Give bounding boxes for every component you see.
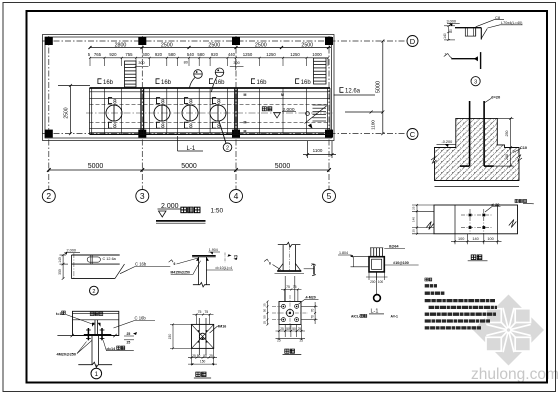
svg-text:350: 350: [58, 269, 62, 275]
svg-text:540: 540: [187, 52, 195, 57]
svg-text:70: 70: [234, 254, 238, 258]
svg-text:5000: 5000: [275, 163, 291, 170]
svg-text:1000: 1000: [312, 52, 322, 57]
grating bars above box: [371, 248, 383, 257]
svg-text:1: 1: [95, 371, 99, 378]
svg-text:L-1: L-1: [187, 146, 196, 152]
svg-text:7: 7: [445, 53, 447, 57]
svg-text:AICL-: AICL-: [351, 315, 360, 319]
svg-text:150: 150: [200, 360, 206, 364]
svg-text:d-20: d-20: [491, 202, 500, 207]
svg-text:50: 50: [263, 309, 267, 313]
svg-text:6: 6: [174, 262, 176, 266]
bottom dims of beam plan: [451, 234, 502, 245]
center line: [73, 253, 75, 280]
svg-text:C 16b: C 16b: [135, 261, 147, 266]
svg-text:580: 580: [168, 52, 176, 57]
bottom dims: [188, 348, 217, 365]
svg-text:140: 140: [412, 217, 416, 222]
beam body: [73, 311, 119, 335]
svg-text:50: 50: [292, 327, 296, 331]
plan title: [156, 203, 224, 223]
svg-text:1100: 1100: [371, 120, 376, 130]
top dim: [281, 288, 302, 301]
svg-text:1.904: 1.904: [209, 248, 218, 252]
column: [193, 257, 210, 287]
bottom dim: [366, 272, 388, 280]
stem and bolt: [376, 272, 378, 295]
left dim stack: [267, 301, 269, 326]
joists: [104, 88, 306, 134]
svg-text:16b: 16b: [301, 80, 312, 86]
left dim: [60, 254, 69, 280]
svg-text:C10: C10: [520, 146, 527, 150]
tank circles on deck: [106, 105, 226, 121]
leader 4-M20: [485, 207, 501, 213]
svg-text:8: 8: [189, 123, 193, 130]
grid3 beam: [140, 88, 142, 134]
svg-text:A#-1: A#-1: [391, 315, 398, 319]
svg-text:75: 75: [198, 310, 202, 314]
break marks: [431, 157, 437, 163]
svg-text:765: 765: [94, 52, 102, 57]
column cross through plate: [199, 318, 206, 355]
svg-text:25: 25: [263, 321, 267, 325]
square plate: [192, 324, 214, 348]
leader C8: [476, 20, 523, 28]
anchor bolts: [460, 101, 494, 166]
callout 2 on plan: [219, 121, 232, 152]
gussets: [278, 264, 301, 271]
lower beam C16b: [72, 278, 115, 280]
beam label C12.6a with leader: [334, 88, 376, 96]
svg-text:-0.200: -0.200: [442, 140, 453, 144]
callout 3: [471, 77, 480, 86]
svg-text:25: 25: [127, 332, 131, 336]
svg-text:3.000: 3.000: [447, 20, 457, 24]
svg-text:100: 100: [378, 280, 384, 284]
svg-text:75: 75: [286, 285, 290, 289]
svg-text:25: 25: [280, 327, 284, 331]
detail callout bubbles on plan: [190, 68, 224, 92]
deck left edge: [89, 88, 91, 134]
svg-text:2.000: 2.000: [67, 248, 77, 252]
bottom 1100 dim: [303, 141, 336, 158]
bolts: [281, 304, 298, 321]
deck right edge: [327, 88, 329, 134]
stiffener: [94, 320, 96, 336]
svg-text:580: 580: [197, 52, 205, 57]
captions: [351, 315, 360, 319]
grid line 2: [48, 36, 50, 190]
svg-text:2500: 2500: [208, 43, 220, 49]
svg-text:2500: 2500: [64, 107, 70, 118]
weld triangles: [92, 323, 95, 327]
label: [196, 372, 200, 376]
bottom dims: [276, 325, 306, 341]
svg-text:50: 50: [197, 354, 201, 358]
right small dims: [124, 336, 134, 340]
svg-text:200: 200: [505, 154, 509, 160]
right bolt symbol: [224, 253, 226, 263]
columns (black squares): [45, 37, 333, 138]
top dim: [193, 314, 214, 325]
svg-text:2: 2: [92, 289, 95, 295]
svg-text:2: 2: [226, 146, 229, 152]
svg-text:50: 50: [263, 315, 267, 319]
svg-text:75: 75: [204, 310, 208, 314]
svg-text:80: 80: [449, 29, 453, 33]
svg-text:4M16: 4M16: [217, 324, 226, 328]
svg-text:1250: 1250: [243, 52, 253, 57]
svg-text:C 16b: C 16b: [135, 316, 147, 321]
svg-text:1250: 1250: [290, 52, 300, 57]
svg-text:250: 250: [505, 131, 509, 137]
svg-text:M: M: [244, 93, 247, 97]
bedding leader: [513, 149, 521, 153]
svg-text:150: 150: [168, 334, 172, 340]
svg-text:400: 400: [142, 52, 150, 57]
grid line 4: [235, 36, 237, 190]
platform outline: [43, 35, 335, 141]
svg-text:C8: C8: [495, 15, 501, 20]
svg-text:80: 80: [184, 61, 188, 65]
bedding line below: [435, 186, 520, 188]
svg-text:920: 920: [211, 52, 219, 57]
svg-text:100: 100: [458, 237, 464, 241]
beam top: [192, 255, 216, 257]
center circle: [199, 333, 205, 339]
bolt center lines: [461, 209, 493, 234]
svg-text:50: 50: [286, 327, 290, 331]
svg-text:3: 3: [474, 80, 477, 86]
edge beam top C16b: [90, 87, 331, 89]
grid4 beam: [234, 88, 236, 134]
svg-text:zhulong.com: zhulong.com: [471, 366, 559, 383]
svg-text:25: 25: [412, 229, 416, 233]
concrete body: [435, 118, 520, 180]
svg-text:25: 25: [298, 327, 302, 331]
svg-text:100: 100: [487, 237, 493, 241]
svg-text:16b: 16b: [257, 80, 268, 86]
svg-text:8: 8: [161, 123, 165, 130]
bolt leader: [484, 99, 491, 104]
column with top break: [278, 242, 301, 271]
svg-text:M: M: [244, 121, 247, 125]
svg-text:M: M: [281, 93, 284, 97]
grid line D: [42, 40, 407, 42]
svg-text:2: 2: [46, 191, 51, 201]
deck framing: [86, 88, 333, 134]
grid line 3: [141, 36, 143, 190]
svg-text:2500: 2500: [301, 43, 313, 49]
svg-text:L70x4(L=40): L70x4(L=40): [501, 21, 523, 25]
svg-text:#10@100: #10@100: [393, 261, 409, 265]
2.000 marker on deck: [262, 107, 296, 118]
svg-text:1250: 1250: [266, 52, 276, 57]
center lines: [272, 295, 308, 331]
svg-text:440: 440: [228, 52, 236, 57]
svg-text:3: 3: [140, 191, 145, 201]
svg-text:8@64: 8@64: [389, 244, 399, 248]
tread: [455, 28, 487, 40]
top dimensions sub row: [90, 57, 328, 59]
cap plate: [57, 335, 118, 337]
svg-text:70: 70: [310, 309, 314, 313]
base plate: [277, 270, 301, 272]
left small vertical dims: [444, 25, 455, 40]
svg-text:920: 920: [109, 52, 117, 57]
svg-text:4-M20: 4-M20: [306, 296, 316, 300]
svg-text:50: 50: [203, 354, 207, 358]
leader: [210, 327, 217, 334]
label steel beam: [471, 255, 476, 260]
box section: [369, 257, 384, 272]
svg-text:12.6a: 12.6a: [345, 89, 361, 95]
bolts: [469, 214, 486, 229]
leader 4-M20: [298, 299, 306, 305]
svg-text:8: 8: [161, 99, 165, 106]
center circle: [286, 309, 293, 316]
svg-text:d=10(L)=4: d=10(L)=4: [216, 266, 233, 270]
svg-text:M: M: [244, 130, 247, 134]
stair bottom right: [305, 105, 328, 128]
svg-text:6: 6: [269, 262, 271, 266]
left vertical dim 2500: [58, 84, 90, 135]
svg-text:5000: 5000: [181, 163, 197, 170]
column witness from above: [285, 276, 295, 302]
svg-text:755: 755: [125, 52, 133, 57]
left labels with leaders: [169, 260, 174, 262]
svg-text:140: 140: [58, 257, 62, 263]
deck horizontals: [90, 91, 331, 93]
svg-text:5000: 5000: [376, 81, 382, 93]
svg-text:d=20: d=20: [491, 95, 501, 100]
svg-text:25: 25: [127, 341, 131, 345]
svg-text:920: 920: [155, 52, 163, 57]
right vertical dim 5000 D-C: [345, 40, 384, 136]
C8 joist labels around circles: [109, 98, 222, 131]
notes title: [425, 278, 428, 281]
svg-text:d=14: d=14: [107, 347, 117, 351]
stair ladder at grid5: [314, 58, 327, 84]
svg-text:25: 25: [192, 354, 196, 358]
left small dims: [351, 257, 370, 267]
svg-text:4M20@250: 4M20@250: [57, 352, 77, 356]
right dims: [494, 117, 514, 168]
left vertical dim of beam plan: [412, 204, 434, 235]
svg-text:2500: 2500: [161, 43, 173, 49]
svg-text:2500: 2500: [255, 43, 267, 49]
svg-text:2.000: 2.000: [283, 107, 295, 113]
weld triangles: [196, 257, 199, 261]
svg-text:1.804: 1.804: [339, 251, 348, 255]
svg-text:1:50: 1:50: [211, 208, 224, 215]
top dimensions main row: [89, 46, 332, 49]
right anchor bolt leader: [304, 268, 315, 270]
svg-text:D: D: [410, 37, 416, 46]
svg-text:5: 5: [327, 191, 332, 201]
witness ticks below sub row: [89, 57, 329, 70]
M joist marks: [244, 93, 285, 134]
svg-text:140: 140: [443, 33, 447, 39]
svg-text:70: 70: [310, 315, 314, 319]
bottom main dim 5000s: [47, 168, 331, 172]
svg-text:2800: 2800: [115, 43, 127, 49]
svg-text:M4150@250: M4150@250: [171, 270, 190, 274]
svg-text:16b: 16b: [215, 80, 226, 86]
left dim: [170, 323, 192, 349]
channel symbols: [98, 79, 299, 84]
callout 2: [90, 286, 99, 295]
grid bubbles D C: [407, 36, 418, 140]
svg-text:16b: 16b: [161, 80, 172, 86]
svg-text:25: 25: [300, 339, 304, 343]
square: [279, 302, 301, 325]
svg-text:300: 300: [233, 61, 239, 65]
right dim: [302, 302, 318, 324]
svg-text:200: 200: [370, 280, 376, 284]
svg-text:8: 8: [113, 123, 117, 130]
L-1 leader and label: [178, 136, 204, 151]
svg-text:C: C: [410, 130, 416, 139]
break zigzags: [426, 222, 434, 230]
svg-text:70: 70: [311, 263, 315, 267]
svg-text:25: 25: [263, 303, 267, 307]
svg-text:25: 25: [209, 354, 213, 358]
weld flag left: [264, 259, 269, 261]
beam labels C16b: [98, 79, 311, 86]
grid bubbles 2 3 4 5: [42, 190, 335, 203]
svg-text:300: 300: [138, 61, 144, 65]
svg-text:C 12.6a: C 12.6a: [103, 257, 117, 261]
svg-text:1100: 1100: [313, 148, 323, 153]
svg-text:25: 25: [412, 206, 416, 210]
callout 1: [95, 365, 97, 369]
svg-text:140: 140: [472, 237, 478, 241]
grid line 5: [328, 36, 330, 190]
svg-text:8: 8: [113, 99, 117, 106]
top beam C12.6a: [72, 255, 125, 279]
grid line C: [42, 133, 407, 135]
bolts through plate: [88, 328, 102, 340]
svg-text:16b: 16b: [103, 80, 114, 86]
label: [285, 349, 289, 353]
watermark logo zhulong: [471, 295, 559, 384]
svg-text:8: 8: [189, 99, 193, 106]
svg-text:4: 4: [234, 191, 239, 201]
stair ladder at grid3: [125, 61, 137, 87]
svg-text:8: 8: [217, 99, 221, 106]
svg-text:25: 25: [277, 339, 281, 343]
diagonals: [192, 324, 214, 348]
column below: [78, 336, 112, 367]
svg-text:5000: 5000: [88, 163, 104, 170]
mini 300 dims at grid3 and grid4: [135, 65, 244, 67]
